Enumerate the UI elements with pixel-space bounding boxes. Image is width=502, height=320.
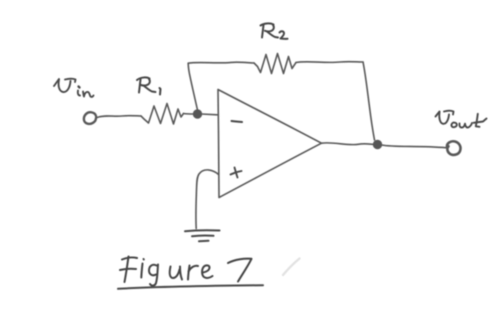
label v_out bbox=[436, 111, 487, 128]
op-amp non-inverting input marker (+) bbox=[231, 168, 242, 178]
caption "Figure 7" bbox=[120, 257, 252, 286]
feedback top wire (left segment to R2) bbox=[188, 62, 254, 63]
caption underline bbox=[118, 285, 263, 289]
resistor R1 bbox=[141, 104, 184, 125]
node: output junction (solder dot) bbox=[373, 140, 381, 148]
label R2 bbox=[261, 23, 288, 38]
op-amp U1 triangle bbox=[218, 90, 322, 198]
wire: op-amp output to output node bbox=[322, 143, 374, 145]
op-amp inverting input marker (−) bbox=[232, 121, 243, 122]
node: inverting input junction (solder dot) bbox=[193, 110, 201, 118]
wire: op-amp + input to ground bbox=[196, 170, 219, 229]
feedback wire: junction rising to R2 (left riser) bbox=[188, 63, 197, 110]
resistor R2 bbox=[254, 54, 296, 74]
label R1 bbox=[137, 77, 161, 94]
feedback top wire (right segment from R2) bbox=[296, 61, 363, 64]
wire: R1 to inverting node bbox=[184, 113, 195, 116]
wire: output node to output terminal bbox=[382, 145, 447, 148]
label v_in bbox=[54, 79, 94, 97]
wire: input terminal to R1 bbox=[97, 116, 141, 118]
faint pencil smudge bbox=[283, 259, 300, 276]
input terminal (v_in port circle) bbox=[84, 112, 96, 124]
wire: junction to op-amp inverting input bbox=[202, 113, 218, 116]
feedback wire: right riser down to output node bbox=[363, 62, 375, 140]
output terminal (v_out port circle) bbox=[447, 141, 461, 155]
ground symbol bbox=[185, 230, 220, 241]
